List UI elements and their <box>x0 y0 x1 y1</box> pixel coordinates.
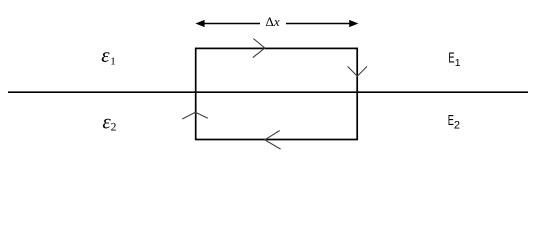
interface line between media <box>8 91 528 93</box>
chevron arrow on right side (downward) <box>348 66 367 76</box>
svg-text:Δx: Δx <box>266 14 280 29</box>
svg-text:2: 2 <box>111 122 117 134</box>
dimension arrowhead left <box>195 20 204 27</box>
svg-text:1: 1 <box>455 57 461 69</box>
svg-text:1: 1 <box>110 55 116 67</box>
rectangle loop <box>196 48 358 139</box>
chevron arrow on bottom side (leftward) <box>265 131 281 150</box>
dimension arrow shaft right <box>286 23 356 25</box>
svg-text:2: 2 <box>454 120 460 132</box>
dimension arrowhead right <box>349 20 358 27</box>
chevron arrow on top side (rightward) <box>253 39 265 58</box>
chevron arrow on left side (upward) <box>182 112 208 119</box>
svg-text:ε: ε <box>101 43 110 67</box>
dimension arrow shaft left <box>198 23 260 25</box>
